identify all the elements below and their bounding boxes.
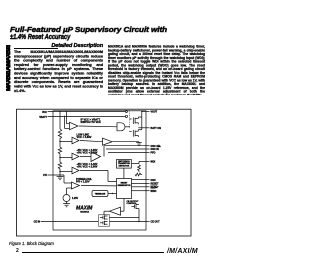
wire C3 out — [80, 156, 91, 158]
pin RESETB — [146, 186, 159, 189]
MAXIM logo (figure) — [76, 205, 93, 213]
transistor M1 (VCC switch) — [129, 117, 142, 124]
pin WDO — [146, 189, 156, 193]
pin OSC — [146, 179, 156, 182]
svg-text:TIMEBASE: TIMEBASE — [95, 193, 106, 196]
AND gate G1 — [117, 123, 129, 131]
svg-text:VCC < 4.65V: VCC < 4.65V — [77, 135, 92, 139]
wire BATT ON — [138, 127, 149, 129]
node tap1 — [59, 141, 60, 142]
svg-text:GENERATOR: GENERATOR — [118, 184, 131, 187]
svg-text:OSC: OSC — [151, 179, 156, 182]
svg-text:1.25V: 1.25V — [72, 198, 78, 200]
pin CE IN — [34, 221, 98, 224]
footer MAXIM logo — [167, 248, 198, 255]
node VOUT — [141, 111, 142, 112]
wire C2 out — [80, 141, 103, 142]
transistor M2 (VBATT switch) — [129, 130, 142, 137]
op-amp C3 (reset comparator) — [72, 153, 79, 160]
wire to PFO — [108, 151, 146, 153]
resistor R1 — [58, 111, 61, 140]
node tap3 — [59, 171, 60, 172]
label C3 — [77, 148, 98, 155]
ground (B1 load) — [136, 142, 142, 146]
vertical part-number strip — [6, 45, 11, 91]
node VCC/divider junction — [59, 111, 60, 112]
op-amp C5 (power-fail comparator) — [72, 182, 80, 189]
block watchdog transition detector — [117, 160, 132, 169]
left column heading: Detailed Description — [14, 43, 103, 49]
wire C4 out to reset generator — [80, 171, 117, 182]
pin VCC — [42, 111, 125, 114]
ground (reference) — [63, 204, 70, 207]
svg-text:MAX691A: MAX691A — [80, 210, 89, 213]
switch contact SW1 — [125, 110, 127, 112]
block reset generator — [117, 179, 132, 199]
svg-text:+3V: VCC < 2.93V: +3V: VCC < 2.93V — [77, 151, 98, 155]
wire to OSC IN — [106, 148, 146, 150]
svg-text:VCC: VCC — [42, 111, 47, 114]
transistor M4 (CE pull) — [132, 204, 140, 218]
label C5 — [76, 177, 92, 184]
title line 1 — [10, 25, 167, 34]
svg-text:DETECTOR: DETECTOR — [119, 165, 130, 167]
FIGURE: block diagram SVG — [0, 0, 213, 275]
wire B1 out — [112, 141, 139, 143]
wire tap2 — [60, 157, 72, 159]
wire timebase to reset generator — [108, 193, 117, 195]
node gate drive — [129, 126, 130, 127]
label C1 — [81, 117, 101, 124]
svg-text:RESET: RESET — [151, 186, 160, 189]
node tap2 — [59, 157, 60, 158]
wire divider — [59, 140, 61, 147]
pin VBATT — [39, 116, 125, 119]
pin PFI — [43, 174, 71, 183]
resistor R2 — [58, 147, 61, 154]
resistor R3 — [58, 162, 61, 169]
wire tap1 — [60, 141, 72, 143]
wire ref to C5 — [67, 188, 72, 195]
svg-text:+3V: VCC < 2.80V: +3V: VCC < 2.80V — [77, 165, 98, 169]
op-amp C1 (battery switchover comparator) — [64, 111, 78, 130]
wire switch linkage (dashed) — [128, 111, 130, 127]
wire VOUT rail — [142, 111, 150, 129]
svg-text:PFI < 1.25V: PFI < 1.25V — [76, 180, 90, 184]
svg-text:PFO: PFO — [151, 152, 156, 155]
wire CE OUT — [110, 218, 147, 222]
svg-text:VOUT: VOUT — [151, 111, 158, 114]
pin WDI — [146, 161, 155, 164]
voltage reference 1.25V — [63, 195, 78, 202]
svg-text:WDO: WDO — [151, 190, 157, 193]
label C4 — [77, 162, 98, 169]
pin RESET — [146, 183, 159, 186]
buffer B1 — [103, 138, 113, 145]
wire to OSC SEL — [104, 146, 146, 157]
wire C5 out — [81, 185, 117, 187]
wire divider to ground — [59, 169, 61, 177]
ground (divider) — [57, 177, 64, 180]
pin OSC IN — [146, 148, 159, 151]
block timebase — [92, 191, 108, 197]
label CE logic — [127, 201, 140, 205]
svg-text:CE IN: CE IN — [34, 221, 41, 224]
wire watchdog to reset generator — [123, 168, 125, 178]
node timebase junction — [112, 193, 113, 194]
wire divider — [59, 154, 61, 162]
pin CE OUT — [146, 221, 160, 224]
figure outer border — [17, 109, 192, 236]
op-amp C2 (low-line comparator) — [72, 137, 79, 144]
op-amp C4 (watchdog threshold) — [72, 167, 79, 174]
wire WDO out — [132, 190, 147, 192]
wire RESETB out — [132, 186, 147, 188]
wire C1 out to gate — [79, 125, 117, 128]
resistor R5 (osc) — [135, 173, 142, 176]
wire tap3 — [60, 171, 72, 173]
resistor R4 (WDI pull) — [138, 165, 141, 172]
right column body text — [108, 45, 205, 95]
left column body text — [14, 50, 103, 93]
inverter B3 — [104, 199, 124, 216]
label C2 — [77, 132, 92, 139]
svg-text:WDI: WDI — [151, 161, 156, 164]
svg-text:BATT ON: BATT ON — [151, 127, 162, 130]
figure caption — [9, 241, 54, 246]
svg-text:PFI: PFI — [43, 174, 47, 177]
IC inner boundary box — [53, 111, 146, 230]
pin PFO — [146, 152, 156, 155]
wire OSC out — [132, 179, 147, 181]
pin OSC SEL — [146, 145, 162, 148]
svg-text:SWITCH TO VCC: SWITCH TO VCC — [81, 120, 101, 124]
footer page number — [16, 248, 19, 254]
wire ref to ground — [66, 202, 68, 204]
node CE junction — [138, 221, 139, 222]
svg-text:VBATT: VBATT — [39, 116, 47, 119]
svg-text:CE OUT: CE OUT — [151, 221, 161, 224]
title line 2 — [10, 32, 70, 41]
wire WDI in — [132, 161, 146, 163]
wire RESET out — [132, 183, 147, 185]
footer rule — [22, 252, 164, 253]
switch contact SW2 — [125, 115, 127, 117]
buffer B2 — [91, 152, 101, 162]
transistor M3 (CE transmission gate) — [99, 215, 110, 226]
